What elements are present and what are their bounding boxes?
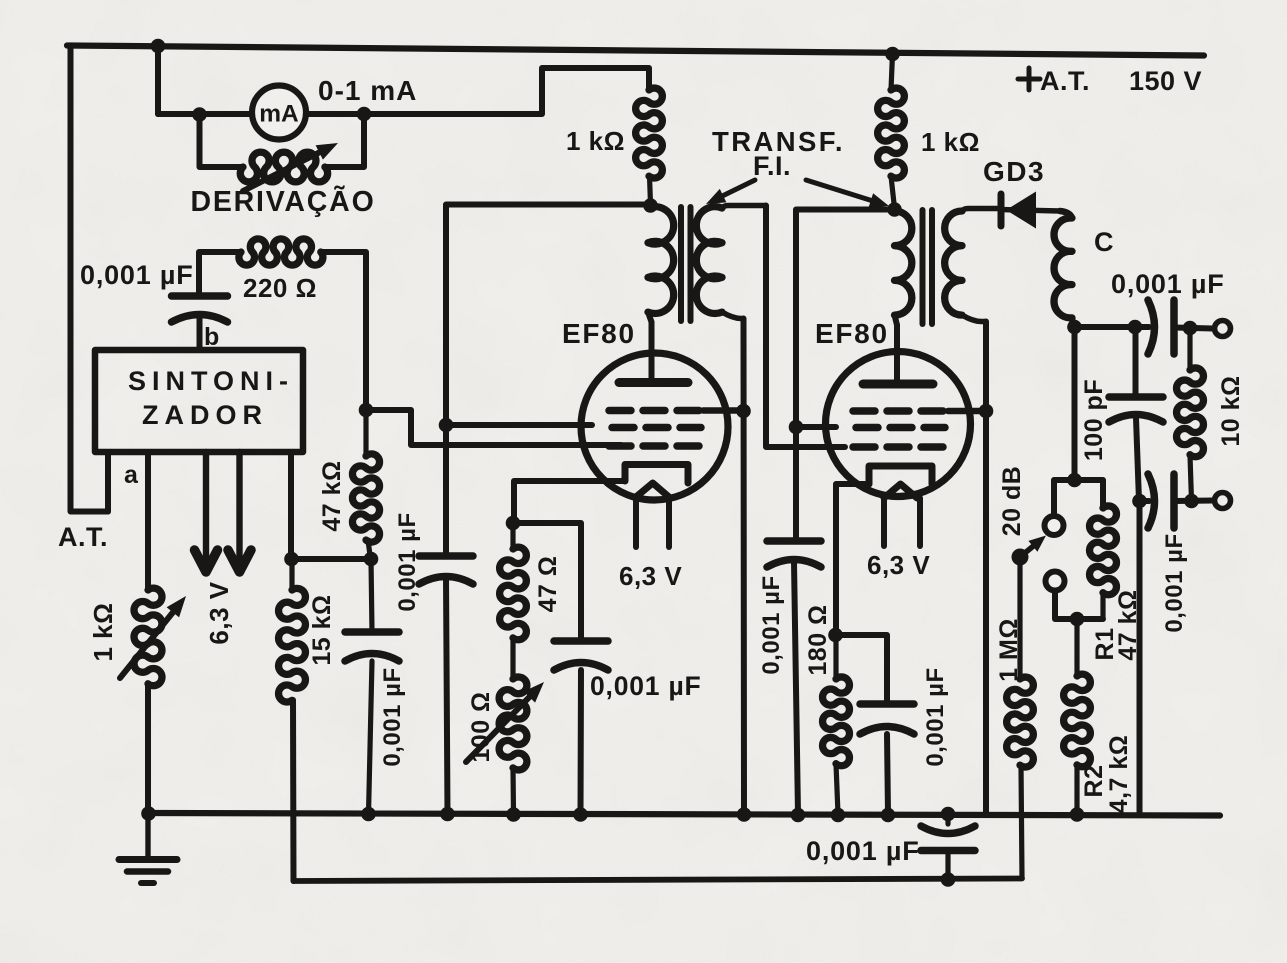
svg-text:F.I.: F.I. bbox=[753, 151, 791, 181]
svg-text:1 kΩ: 1 kΩ bbox=[921, 127, 980, 157]
label 1 kOhm left bbox=[88, 603, 118, 662]
label 0,001uF tuner-b bbox=[80, 260, 194, 290]
node top-left junction bbox=[151, 39, 166, 54]
wire screen1 to grid2row bbox=[446, 422, 592, 428]
node plate1 B+ bbox=[643, 198, 658, 213]
label 0,001uF cathode1 bbox=[590, 671, 702, 701]
potentiometer 100 ohm bbox=[466, 638, 544, 814]
node rail screen2 bbox=[791, 808, 806, 823]
node switch top bbox=[1067, 473, 1082, 488]
svg-text:10 kΩ: 10 kΩ bbox=[1217, 375, 1245, 446]
node out-lower right bbox=[1184, 494, 1199, 509]
label 6,3V V2 bbox=[867, 550, 930, 580]
label 6,3V left bbox=[204, 581, 234, 644]
ground symbol bbox=[119, 813, 177, 883]
wire box pin a bbox=[145, 452, 151, 590]
node rail 100ohm bbox=[506, 807, 521, 822]
svg-text:ZADOR: ZADOR bbox=[142, 400, 268, 430]
capacitor 0,001uF out-lower bbox=[1148, 474, 1174, 528]
wire cathode1 cap branch bbox=[513, 523, 581, 641]
wire screen1 feed bbox=[446, 205, 650, 555]
wire g3 tube1 link bbox=[703, 407, 744, 414]
node cathode2 bbox=[828, 628, 843, 643]
svg-text:0,001 µF: 0,001 µF bbox=[1111, 269, 1225, 299]
wire grid1 jog bbox=[366, 410, 621, 445]
node grid1 feed bbox=[359, 403, 374, 418]
terminal out-lower bbox=[1215, 493, 1231, 509]
capacitor 0,001uF tuner-b bbox=[172, 296, 228, 322]
label R1 bbox=[1091, 628, 1119, 661]
ground rail bbox=[148, 813, 1220, 816]
node screen2 bbox=[789, 420, 804, 435]
wire top B+ rail bbox=[67, 46, 1204, 56]
svg-text:47 kΩ: 47 kΩ bbox=[1114, 589, 1142, 660]
wire left A.T. drop bbox=[71, 46, 159, 512]
capacitor 0,001uF screen1 bbox=[419, 556, 473, 584]
label 15 kOhm bbox=[308, 594, 336, 665]
node rail 180 bbox=[831, 808, 846, 823]
node rail g3-1 bbox=[737, 807, 752, 822]
wire screen2 to grid bbox=[796, 424, 836, 430]
label 1 MOhm bbox=[995, 618, 1023, 682]
node out-lower left bbox=[1132, 494, 1147, 509]
svg-text:6,3 V: 6,3 V bbox=[619, 561, 682, 591]
meter M1 0-1 mA bbox=[252, 86, 306, 140]
node meter-right bbox=[357, 107, 372, 122]
node rail cath2 bbox=[881, 808, 896, 823]
label 10 kOhm bbox=[1217, 375, 1245, 446]
label 0,001uF AGC bbox=[379, 667, 406, 766]
capacitor 0,001uF cathode1 bbox=[554, 641, 608, 670]
tube EF80 V1 bbox=[581, 353, 728, 500]
node g3 tube1 bbox=[736, 404, 751, 419]
svg-text:47 Ω: 47 Ω bbox=[534, 556, 562, 613]
node plate2 B+ bbox=[887, 202, 902, 217]
label TRANSF. F.I. bbox=[712, 126, 845, 181]
resistor 1 kOhm stage2 bbox=[878, 54, 905, 208]
node 100pF top bbox=[1128, 320, 1143, 335]
svg-text:4,7 kΩ: 4,7 kΩ bbox=[1105, 735, 1133, 814]
wire out ground drop bbox=[1137, 501, 1143, 812]
label A.T. left bbox=[58, 522, 108, 552]
svg-text:mA: mA bbox=[259, 101, 299, 128]
svg-text:220 Ω: 220 Ω bbox=[243, 273, 317, 303]
label 220 ohm bbox=[243, 273, 317, 303]
wire 220 ohm left corner bbox=[199, 252, 241, 296]
label DERIVACAO bbox=[190, 186, 375, 218]
wire g3 tube2 link bbox=[948, 408, 986, 415]
node rail screen1 bbox=[440, 807, 455, 822]
wire anode1 bbox=[649, 322, 655, 380]
wire switch feed bbox=[1072, 327, 1078, 480]
resistor 10 kOhm bbox=[1177, 328, 1204, 501]
label R2 bbox=[1080, 765, 1108, 798]
label 1 kOhm stage1 bbox=[566, 126, 625, 156]
label 0,001uF cathode2 bbox=[922, 667, 949, 766]
wire heater stubs V1 bbox=[636, 497, 669, 547]
label pin a bbox=[124, 461, 139, 489]
node screen1 bbox=[439, 418, 454, 433]
wire meter branch bbox=[158, 68, 649, 114]
resistor 220 ohm bbox=[239, 239, 323, 265]
capacitor 0,001uF cathode2 bbox=[860, 704, 914, 734]
terminal out-upper bbox=[1215, 321, 1231, 337]
wire cathode1 cap to rail bbox=[578, 670, 585, 814]
node rail bypass bbox=[941, 807, 956, 822]
label GD3 bbox=[983, 156, 1045, 187]
svg-text:150 V: 150 V bbox=[1129, 66, 1202, 96]
label 47 ohm bbox=[534, 556, 562, 613]
node 15k top bbox=[284, 552, 299, 567]
node 10k top bbox=[1183, 321, 1198, 336]
resistor 47 kOhm bbox=[352, 408, 379, 559]
wire detector line bbox=[1075, 324, 1150, 330]
node rail pot bbox=[141, 806, 156, 821]
capacitor 0,001uF rail bbox=[921, 814, 975, 880]
svg-text:0,001 µF: 0,001 µF bbox=[758, 575, 785, 674]
transformer FI1 secondary bbox=[696, 206, 766, 319]
resistor 180 ohm bbox=[823, 635, 850, 814]
wire cathode2 cap branch bbox=[836, 635, 887, 704]
wire FI2 sec bottom ground bbox=[983, 322, 989, 813]
wire FI1 sec top to grid2 bbox=[766, 206, 845, 448]
svg-text:0,001 µF: 0,001 µF bbox=[1161, 533, 1188, 632]
switch contact upper bbox=[1045, 516, 1064, 535]
label 20 dB bbox=[998, 466, 1026, 537]
label EF80 V1 bbox=[562, 318, 636, 349]
wire out-lower line bbox=[1140, 498, 1150, 504]
wire screen2 feed bbox=[796, 210, 893, 540]
wire out-lower lead bbox=[1174, 498, 1213, 505]
wire cap to box b bbox=[197, 318, 203, 349]
wire pot to ground rail bbox=[145, 684, 151, 814]
wire FI1 sec bottom ground bbox=[741, 319, 748, 815]
label 0-1 mA bbox=[318, 75, 417, 106]
label EF80 V2 bbox=[815, 318, 889, 349]
svg-text:180 Ω: 180 Ω bbox=[804, 604, 832, 675]
svg-text:0,001 µF: 0,001 µF bbox=[80, 260, 194, 290]
svg-text:15 kΩ: 15 kΩ bbox=[308, 594, 336, 665]
svg-text:C: C bbox=[1094, 227, 1114, 257]
svg-text:1 kΩ: 1 kΩ bbox=[566, 126, 625, 156]
node AGC cap bbox=[941, 872, 956, 887]
svg-text:GD3: GD3 bbox=[983, 156, 1045, 187]
transformer FI2 secondary bbox=[945, 209, 1000, 322]
svg-text:0-1 mA: 0-1 mA bbox=[318, 75, 417, 106]
transformer FI2 primary bbox=[895, 211, 912, 325]
resistor R2 4,7 kOhm bbox=[1064, 619, 1091, 814]
svg-text:0,001 µF: 0,001 µF bbox=[806, 836, 920, 866]
svg-text:DERIVAÇÃO: DERIVAÇÃO bbox=[190, 186, 375, 218]
resistor 1 kOhm stage1 bbox=[636, 88, 663, 204]
label 180 ohm bbox=[804, 604, 832, 675]
diode GD3 bbox=[1000, 192, 1061, 229]
label 1 kOhm stage2 bbox=[921, 127, 980, 157]
label R2 4,7 kOhm bbox=[1105, 735, 1133, 814]
svg-text:0,001 µF: 0,001 µF bbox=[922, 667, 949, 766]
svg-text:a: a bbox=[124, 461, 139, 489]
wire cathode2 cap to rail bbox=[887, 734, 888, 814]
svg-text:6,3 V: 6,3 V bbox=[867, 550, 930, 580]
wire anode2 bbox=[894, 325, 900, 382]
label 0,001uF out-upper bbox=[1111, 269, 1225, 299]
svg-text:100 Ω: 100 Ω bbox=[467, 691, 495, 762]
svg-text:EF80: EF80 bbox=[562, 318, 636, 349]
wire screen2 cap to rail bbox=[794, 562, 798, 814]
potentiometer DERIVACAO shunt bbox=[240, 143, 338, 191]
capacitor 100 pF bbox=[1109, 397, 1163, 422]
node R2 top bbox=[1070, 612, 1085, 627]
wire 15k to AGC rail bbox=[290, 700, 297, 881]
resistor 1 MOhm bbox=[1007, 557, 1034, 878]
wire heater stubs V2 bbox=[884, 498, 920, 546]
wire screen1 cap to rail bbox=[446, 577, 448, 814]
wire switch bracket bottom bbox=[1055, 591, 1103, 619]
node meter-left bbox=[192, 107, 207, 122]
svg-text:0,001 µF: 0,001 µF bbox=[379, 667, 406, 766]
resistor R1 47 kOhm bbox=[1090, 506, 1117, 619]
svg-text:47 kΩ: 47 kΩ bbox=[318, 460, 346, 531]
wire 100pF drop bbox=[1133, 327, 1139, 397]
label 100 pF bbox=[1080, 379, 1108, 461]
svg-text:EF80: EF80 bbox=[815, 318, 889, 349]
label 47 kOhm bbox=[318, 460, 346, 531]
label 100 ohm bbox=[467, 691, 495, 762]
switch contact lower bbox=[1046, 572, 1065, 591]
node rail cath1 bbox=[573, 807, 588, 822]
svg-text:20 dB: 20 dB bbox=[998, 466, 1026, 537]
label 0,001uF screen1 bbox=[394, 512, 421, 611]
node R2 rail bbox=[1070, 807, 1085, 822]
wire cathode2 bbox=[836, 484, 869, 635]
label 0,001uF rail bbox=[806, 836, 920, 866]
arrow heater 6,3V #1 bbox=[195, 452, 218, 572]
label +A.T. 150V bbox=[1018, 66, 1202, 96]
node g3 tube2 bbox=[979, 404, 994, 419]
label pin b bbox=[204, 323, 220, 351]
svg-text:SINTONI-: SINTONI- bbox=[128, 366, 294, 396]
resistor 15 kOhm bbox=[279, 559, 306, 702]
arrow heater 6,3V #2 bbox=[228, 452, 251, 572]
wire 15k-47k link bbox=[292, 556, 372, 562]
label 0,001uF out-lower bbox=[1161, 533, 1188, 632]
capacitor 0,001uF AGC bbox=[345, 559, 399, 814]
svg-text:A.T.: A.T. bbox=[58, 522, 108, 552]
wire out-upper lead bbox=[1174, 328, 1213, 329]
transformer FI1 primary bbox=[648, 206, 674, 323]
wire box pin1 to A.T. bbox=[105, 452, 111, 512]
svg-text:1 MΩ: 1 MΩ bbox=[995, 618, 1023, 682]
arrow to FI2 bbox=[806, 180, 889, 208]
potentiometer 1 kOhm left bbox=[120, 588, 186, 686]
AGC rail bbox=[294, 879, 1023, 882]
node 47k bottom bbox=[364, 552, 379, 567]
capacitor 0,001uF screen2 bbox=[767, 541, 821, 567]
node B+ stage2 bbox=[885, 47, 900, 62]
wire cathode1 bbox=[514, 481, 625, 523]
transformer FI1 core bbox=[681, 207, 691, 321]
svg-text:R2: R2 bbox=[1080, 765, 1108, 798]
wire 220 ohm right drop bbox=[321, 252, 366, 408]
box SINTONIZADOR bbox=[95, 350, 303, 452]
transformer FI2 core bbox=[923, 210, 933, 324]
arrow to FI1 bbox=[706, 180, 755, 204]
tube EF80 V2 bbox=[826, 352, 971, 499]
label 0,001uF screen2 bbox=[758, 575, 785, 674]
wire shunt bracket bbox=[200, 114, 365, 167]
capacitor 0,001uF out-upper bbox=[1148, 300, 1174, 354]
switch pole 20dB bbox=[1012, 536, 1047, 566]
label 6,3V V1 bbox=[619, 561, 682, 591]
node rail AGCcap bbox=[361, 807, 376, 822]
svg-text:6,3 V: 6,3 V bbox=[204, 581, 234, 644]
resistor 47 ohm bbox=[500, 523, 527, 640]
svg-text:100 pF: 100 pF bbox=[1080, 379, 1108, 461]
node cathode1 bbox=[506, 516, 521, 531]
svg-text:1 kΩ: 1 kΩ bbox=[88, 603, 118, 662]
label R1 47 kOhm bbox=[1114, 589, 1142, 660]
wire switch bracket top bbox=[1054, 480, 1103, 516]
label C bbox=[1094, 227, 1114, 257]
node detector out bbox=[1067, 320, 1082, 335]
coil C detector bbox=[1054, 211, 1074, 327]
wire box pin right bbox=[288, 452, 294, 559]
svg-text:0,001 µF: 0,001 µF bbox=[590, 671, 702, 701]
svg-text:0,001 µF: 0,001 µF bbox=[394, 512, 421, 611]
svg-text:A.T.: A.T. bbox=[1040, 66, 1090, 96]
wire 100pF bottom bbox=[1136, 418, 1139, 501]
